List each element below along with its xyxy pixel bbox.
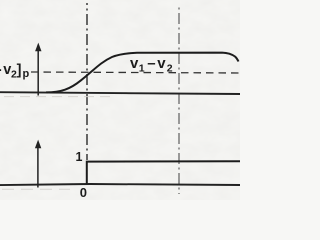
svg-text:v: v: [130, 55, 139, 72]
svg-text:–: –: [147, 55, 155, 72]
wire: dash-dot vertical line at t=0 (x=87): [86, 3, 88, 160]
svg-text:-: -: [0, 62, 2, 78]
node: top plot x-axis baseline: [0, 92, 240, 94]
wire: unit step u(t): [87, 161, 240, 185]
wire: dash-dot vertical line #2 (x=179): [178, 7, 180, 194]
svg-text:2: 2: [167, 63, 173, 75]
svg-text:v: v: [157, 55, 166, 72]
svg-text:p: p: [23, 68, 30, 80]
node: label (v1-v2)p at left edge: [0, 62, 30, 81]
node: top plot y-axis with arrow: [37, 50, 39, 96]
svg-text:0: 0: [80, 185, 87, 200]
node: bottom plot x-axis baseline: [0, 184, 240, 185]
node: label v1-v2 above dashed line: [130, 55, 173, 75]
node: bottom plot y-axis with arrow: [37, 147, 39, 188]
paper background: [0, 0, 240, 200]
wire: dashed horizontal level line (v1-v2)p: [31, 72, 240, 73]
wire: output response curve v1-v2: [46, 53, 239, 93]
wire: scan ghost under bottom baseline: [2, 188, 70, 190]
wire: scan ghost under top baseline: [4, 96, 112, 98]
svg-text:1: 1: [139, 63, 145, 75]
svg-text:]: ]: [17, 63, 22, 79]
svg-text:1: 1: [76, 150, 83, 164]
